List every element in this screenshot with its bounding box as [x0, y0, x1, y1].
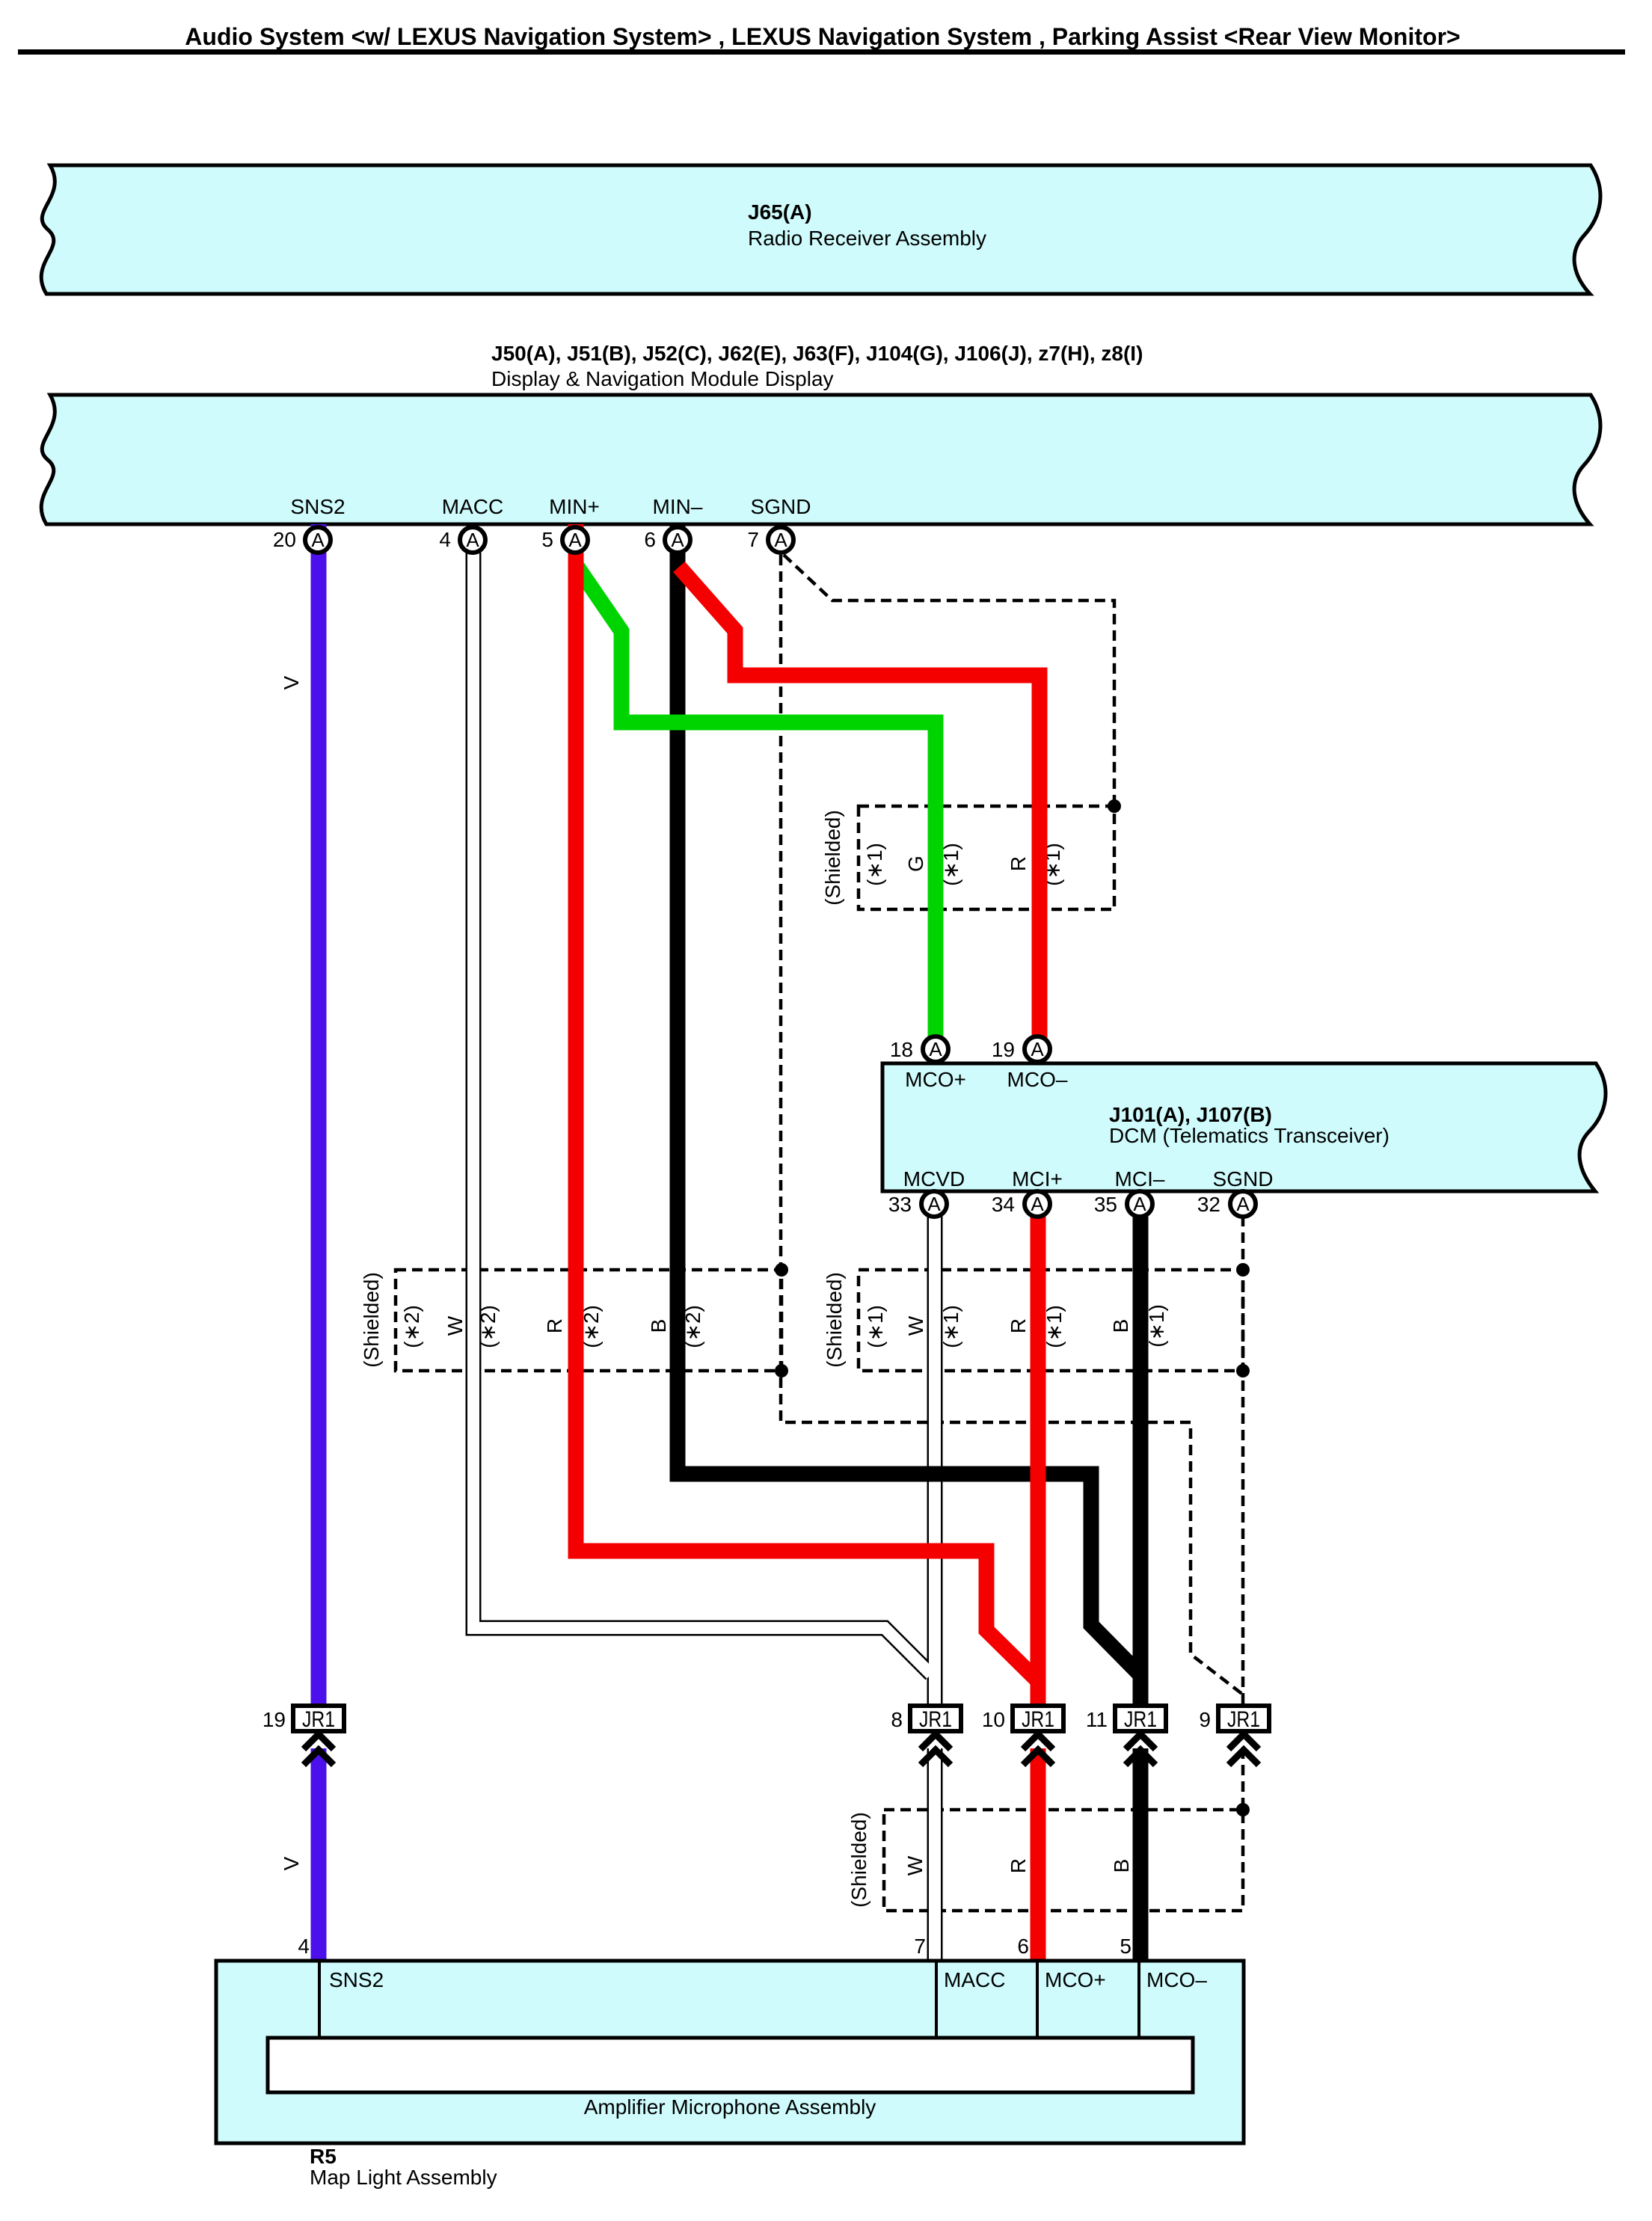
component DCM J101(A), J107(B) box	[882, 1063, 1606, 1191]
chevrons JR1 9	[1229, 1734, 1259, 1765]
svg-text:W: W	[904, 1315, 927, 1336]
svg-text:7: 7	[914, 1935, 926, 1958]
divider SNS2 cell	[318, 1961, 321, 2038]
svg-text:(∗2): (∗2)	[400, 1305, 423, 1348]
svg-text:4: 4	[298, 1935, 310, 1958]
svg-text:A: A	[1031, 1193, 1044, 1215]
svg-text:Radio Receiver Assembly: Radio Receiver Assembly	[748, 227, 986, 250]
wire SGND dashed branch to shield dot	[784, 555, 1114, 806]
pin 20 A	[273, 527, 331, 553]
svg-text:W: W	[903, 1855, 927, 1876]
wire MIN- black	[678, 524, 1140, 1675]
svg-text:JR1: JR1	[1227, 1707, 1260, 1732]
wire SGND dashed below JR1 9	[1241, 1748, 1245, 1810]
wire MIN+ red	[576, 524, 1038, 1681]
svg-text:MACC: MACC	[944, 1968, 1005, 1991]
svg-text:MCO+: MCO+	[1045, 1968, 1106, 1991]
svg-text:G: G	[904, 855, 927, 872]
svg-text:6: 6	[644, 528, 656, 551]
svg-text:A: A	[311, 529, 325, 551]
svg-text:A: A	[927, 1193, 941, 1215]
svg-text:MIN–: MIN–	[653, 495, 703, 518]
svg-text:5: 5	[1120, 1935, 1131, 1958]
svg-text:R: R	[543, 1318, 566, 1333]
svg-text:(∗1): (∗1)	[1145, 1304, 1168, 1348]
svg-text:R5: R5	[310, 2145, 337, 2168]
svg-text:(∗1): (∗1)	[1043, 1305, 1066, 1348]
svg-text:(Shielded): (Shielded)	[360, 1272, 383, 1368]
junction dot bottom box	[1236, 1803, 1250, 1816]
svg-text:JR1: JR1	[302, 1707, 335, 1732]
svg-text:MCO–: MCO–	[1007, 1068, 1068, 1091]
svg-text:A: A	[929, 1038, 942, 1060]
svg-text:R: R	[1007, 856, 1030, 871]
junction JR1 10	[982, 1706, 1063, 1732]
svg-text:19: 19	[262, 1708, 286, 1731]
wire white below JR1 8 outline	[927, 1748, 943, 1961]
svg-text:33: 33	[888, 1193, 912, 1216]
svg-text:A: A	[1236, 1193, 1250, 1215]
svg-text:(Shielded): (Shielded)	[847, 1812, 870, 1908]
svg-text:J101(A), J107(B): J101(A), J107(B)	[1109, 1103, 1272, 1126]
svg-text:35: 35	[1094, 1193, 1117, 1216]
svg-text:(Shielded): (Shielded)	[821, 810, 844, 906]
component J50 Display & Navigation Module Display band	[41, 395, 1600, 524]
svg-text:(∗1): (∗1)	[863, 843, 886, 886]
wire red below JR1 10	[1031, 1748, 1046, 1961]
wire violet below JR1 19	[311, 1748, 327, 1961]
divider MCO+ cell	[1036, 1961, 1039, 2038]
pin 7 A	[747, 527, 793, 553]
svg-text:(∗1): (∗1)	[864, 1305, 887, 1348]
shield box around MCO wires (*1)	[859, 806, 1114, 909]
svg-text:MIN+: MIN+	[549, 495, 600, 518]
wire MCI- black	[1133, 1216, 1149, 1704]
chevrons JR1 10	[1023, 1734, 1053, 1765]
svg-text:Amplifier Microphone Assembly: Amplifier Microphone Assembly	[584, 2095, 876, 2119]
svg-text:5: 5	[541, 528, 553, 551]
svg-text:JR1: JR1	[1124, 1707, 1157, 1732]
svg-text:9: 9	[1199, 1708, 1211, 1731]
pin 32 A	[1197, 1191, 1256, 1217]
svg-text:SNS2: SNS2	[329, 1968, 384, 1991]
svg-text:34: 34	[992, 1193, 1015, 1216]
svg-text:A: A	[671, 529, 684, 551]
pin 35 A	[1094, 1191, 1152, 1217]
pin 18 A	[890, 1036, 948, 1062]
svg-text:J65(A): J65(A)	[748, 200, 812, 224]
svg-text:JR1: JR1	[919, 1707, 952, 1732]
wires layer	[319, 524, 1250, 1961]
title rule	[18, 49, 1625, 55]
svg-text:4: 4	[439, 528, 451, 551]
component J65(A) Radio Receiver Assembly band	[41, 165, 1600, 294]
svg-text:Map Light Assembly: Map Light Assembly	[310, 2166, 497, 2189]
svg-text:JR1: JR1	[1022, 1707, 1054, 1732]
svg-text:MCI–: MCI–	[1115, 1167, 1165, 1191]
svg-text:A: A	[568, 529, 582, 551]
svg-text:SGND: SGND	[751, 495, 811, 518]
svg-text:19: 19	[992, 1038, 1015, 1061]
svg-text:SGND: SGND	[1213, 1167, 1274, 1191]
svg-text:MCI+: MCI+	[1012, 1167, 1063, 1191]
component Amplifier Microphone Assembly	[268, 2038, 1193, 2092]
wire MCO+ green	[577, 567, 936, 1038]
pin 6 A	[644, 527, 690, 553]
chevrons JR1 8	[921, 1734, 951, 1765]
wire MCVD white outline	[927, 1216, 943, 1704]
pin 4 A	[439, 527, 485, 553]
svg-text:A: A	[1031, 1038, 1044, 1060]
wire SGND dashed from pin 7 straight down	[781, 555, 1243, 1695]
svg-text:A: A	[1133, 1193, 1146, 1215]
wire black below JR1 11	[1133, 1748, 1149, 1961]
shield box bottom	[884, 1810, 1243, 1911]
svg-text:W: W	[443, 1315, 467, 1336]
divider MACC cell	[935, 1961, 938, 2038]
junction dot right box top	[1236, 1263, 1250, 1277]
junction JR1 8	[891, 1706, 961, 1732]
pin 5 A	[541, 527, 588, 553]
svg-text:MCVD: MCVD	[903, 1167, 965, 1191]
svg-text:7: 7	[747, 528, 759, 551]
junction JR1 11	[1086, 1706, 1166, 1732]
svg-text:MCO–: MCO–	[1146, 1968, 1207, 1991]
svg-text:J50(A), J51(B), J52(C), J62(E): J50(A), J51(B), J52(C), J62(E), J63(F), …	[491, 342, 1143, 365]
svg-text:B: B	[1109, 1319, 1132, 1333]
junction dot right box bottom	[1236, 1364, 1250, 1377]
wire SGND dashed from DCM pin 32	[1241, 1216, 1245, 1704]
pin 19 A	[992, 1036, 1050, 1062]
junction JR1 19	[262, 1706, 344, 1732]
pin 34 A	[992, 1191, 1050, 1217]
svg-text:10: 10	[982, 1708, 1005, 1731]
junction dot shield MCO	[1108, 799, 1121, 813]
junction dot left box top	[775, 1263, 788, 1277]
pin 33 A	[888, 1191, 947, 1217]
svg-text:11: 11	[1086, 1708, 1108, 1731]
svg-text:B: B	[647, 1319, 670, 1333]
svg-text:6: 6	[1017, 1935, 1029, 1958]
chevrons JR1 11	[1126, 1734, 1155, 1765]
svg-text:R: R	[1007, 1318, 1030, 1333]
svg-text:SNS2: SNS2	[290, 495, 345, 518]
wire MCI+ red	[1031, 1216, 1046, 1704]
svg-text:8: 8	[891, 1708, 903, 1731]
wire white below JR1 8 core	[929, 1748, 941, 1961]
svg-text:(Shielded): (Shielded)	[823, 1272, 846, 1368]
wire SNS2 violet	[311, 524, 327, 1704]
svg-text:MCO+: MCO+	[905, 1068, 966, 1091]
svg-text:18: 18	[890, 1038, 913, 1061]
svg-text:R: R	[1007, 1858, 1030, 1873]
svg-text:Display & Navigation Module Di: Display & Navigation Module Display	[491, 367, 834, 390]
divider MCO- cell	[1137, 1961, 1140, 2038]
svg-text:Audio System <w/ LEXUS Navigat: Audio System <w/ LEXUS Navigation System…	[185, 23, 1460, 50]
svg-text:A: A	[774, 529, 787, 551]
svg-text:32: 32	[1197, 1193, 1220, 1216]
wire MCO- red branch	[679, 567, 1040, 1038]
wire MCVD white core	[929, 1216, 941, 1704]
shield box right (*1)	[859, 1270, 1243, 1371]
svg-text:B: B	[1110, 1859, 1133, 1873]
wire MACC white core	[473, 532, 931, 1674]
component R5 Map Light Assembly box	[216, 1961, 1244, 2143]
shield box left (*2)	[396, 1270, 782, 1371]
svg-text:V: V	[280, 1856, 303, 1870]
wire MACC white outline	[473, 532, 931, 1674]
svg-text:(∗1): (∗1)	[939, 1305, 962, 1348]
svg-text:V: V	[280, 675, 303, 689]
svg-text:20: 20	[273, 528, 296, 551]
chevrons JR1 19	[304, 1734, 334, 1765]
svg-text:A: A	[466, 529, 479, 551]
junction JR1 9	[1199, 1706, 1269, 1732]
junction dot left box bottom	[775, 1364, 788, 1377]
svg-text:DCM (Telematics Transceiver): DCM (Telematics Transceiver)	[1109, 1124, 1390, 1147]
svg-text:MACC: MACC	[442, 495, 503, 518]
